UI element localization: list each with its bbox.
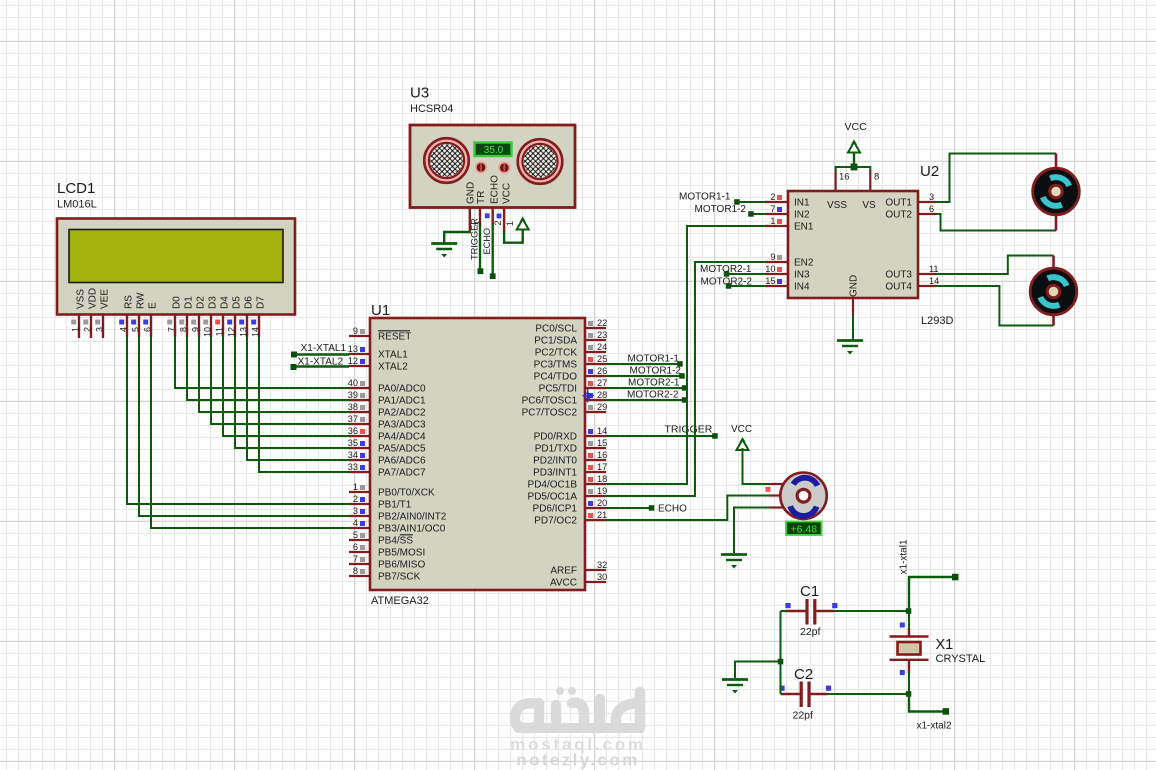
- svg-text:PA0/ADC0: PA0/ADC0: [378, 384, 426, 395]
- wire LCD RW to PB2: [139, 336, 349, 516]
- svg-text:39: 39: [348, 390, 358, 400]
- svg-text:LM016L: LM016L: [57, 199, 97, 211]
- svg-text:28: 28: [597, 390, 607, 400]
- svg-text:PA7/ADC7: PA7/ADC7: [378, 468, 426, 479]
- U2 pin 14 (OUT4) stub: [918, 285, 936, 287]
- svg-text:D0: D0: [172, 296, 183, 309]
- svg-text:x1-xtal1: x1-xtal1: [899, 539, 910, 574]
- LCD1 pin 11 stub: [222, 315, 224, 338]
- node ECHO terminal dot: [490, 273, 496, 279]
- svg-text:GND: GND: [466, 182, 477, 204]
- svg-text:16: 16: [597, 450, 607, 460]
- U1 pin 22 indicator square: [588, 321, 593, 326]
- svg-text:ECHO: ECHO: [658, 504, 687, 515]
- svg-text:PD1/TXD: PD1/TXD: [535, 444, 577, 455]
- U3 TR pin stub: [479, 208, 481, 226]
- U3 trim pot left: [476, 162, 486, 172]
- X1 indicator squares: [900, 623, 905, 628]
- svg-text:38: 38: [348, 402, 358, 412]
- U2 pin 15 indicator square: [777, 279, 782, 284]
- svg-text:D4: D4: [220, 296, 231, 309]
- svg-text:18: 18: [597, 474, 607, 484]
- ground (crystal): [722, 680, 748, 694]
- node x1-xtal2 terminal dot: [943, 708, 950, 715]
- wire U2 OUT3 to motor M2 +: [936, 256, 1054, 275]
- U1 pin 2 indicator square: [360, 497, 365, 502]
- svg-text:C2: C2: [794, 666, 813, 683]
- svg-text:9: 9: [353, 326, 358, 336]
- svg-text:7: 7: [166, 327, 176, 332]
- wire x1-xtal1 net: [909, 577, 955, 611]
- wire U1 pin28 MOTOR2-2: [606, 399, 685, 401]
- LCD1 pin 1 indicator square: [71, 320, 76, 325]
- U1 pin 7 (PB6/MISO) stub: [349, 563, 370, 565]
- svg-text:C1: C1: [800, 583, 819, 600]
- LCD1 pin 12 indicator square: [227, 320, 232, 325]
- wire C1 left: [781, 610, 787, 612]
- svg-text:PD7/OC2: PD7/OC2: [534, 516, 577, 527]
- svg-text:PC1/SDA: PC1/SDA: [534, 336, 577, 347]
- U1 pin 16 (PD2/INT0) stub: [585, 459, 606, 461]
- svg-text:D1: D1: [184, 296, 195, 309]
- U1 pin 23 (PC1/SDA) stub: [585, 339, 606, 341]
- svg-text:7: 7: [353, 554, 358, 564]
- U1 pin 6 indicator square: [360, 545, 365, 550]
- svg-text:9: 9: [190, 327, 200, 332]
- wire X1-XTAL1 to U1 XTAL1: [294, 353, 349, 355]
- svg-text:PB3/AIN1/OC0: PB3/AIN1/OC0: [378, 524, 446, 535]
- svg-text:IN3: IN3: [794, 270, 810, 281]
- svg-text:X1-XTAL1: X1-XTAL1: [301, 343, 347, 354]
- motor M1 bottom pin: [1055, 213, 1058, 231]
- svg-text:IN2: IN2: [794, 210, 810, 221]
- U2 pin 6 (OUT2) stub: [918, 213, 936, 215]
- MCU U1 ATMEGA32 body: [370, 318, 585, 590]
- servo + indicator square: [766, 487, 771, 492]
- LCD1 pin 7 indicator square: [167, 320, 172, 325]
- wire servo - to ground: [734, 508, 770, 554]
- LCD1 pin 3 stub: [102, 315, 104, 339]
- LCD1 pin 8 stub: [186, 315, 188, 338]
- U2 pin 8 (VS) stub: [869, 170, 871, 191]
- svg-text:11: 11: [214, 327, 224, 336]
- svg-text:8: 8: [874, 172, 879, 183]
- svg-text:PA3/ADC3: PA3/ADC3: [378, 420, 426, 431]
- svg-text:VEE: VEE: [100, 289, 111, 309]
- U3 ECHO pin stub: [492, 208, 494, 226]
- C1 indicator squares: [785, 603, 790, 608]
- U3 ECHO indicator square: [497, 214, 502, 219]
- U1 pin 12 (XTAL2) stub: [349, 365, 370, 367]
- wire LCD RS to PB1: [127, 336, 349, 504]
- svg-text:VSS: VSS: [76, 289, 87, 309]
- U1 pin 7 indicator square: [360, 557, 365, 562]
- U2 pin 7 (IN2) stub: [765, 213, 788, 215]
- LCD1 pin 13 indicator square: [239, 320, 244, 325]
- wire U1 PD7 to servo signal: [606, 496, 770, 521]
- sensor U3 HCSR04 body: [410, 125, 575, 208]
- svg-text:PD5/OC1A: PD5/OC1A: [528, 492, 578, 503]
- wire LCD D2 to PA2: [199, 336, 349, 412]
- driver U2 L293D body: [788, 191, 918, 298]
- svg-text:E: E: [148, 302, 159, 309]
- U1 pin 26 indicator square: [588, 369, 593, 374]
- LCD LCD1 pin names: [76, 288, 267, 309]
- U1 pin 39 indicator square: [360, 393, 365, 398]
- svg-text:PB7/SCK: PB7/SCK: [378, 572, 421, 583]
- svg-text:40: 40: [348, 378, 358, 388]
- ground (U3): [431, 244, 457, 258]
- wire LCD D3 to PA3: [211, 336, 349, 424]
- U1 pin 19 (PD5/OC1A) stub: [585, 495, 606, 497]
- svg-text:IN1: IN1: [794, 198, 810, 209]
- svg-text:33: 33: [348, 462, 358, 472]
- svg-text:10: 10: [765, 264, 775, 274]
- U1 pin 34 indicator square: [360, 453, 365, 458]
- U2 pin 2 indicator square: [777, 195, 782, 200]
- svg-text:D5: D5: [232, 296, 243, 309]
- svg-text:PD4/OC1B: PD4/OC1B: [528, 480, 578, 491]
- svg-text:MOTOR1-2: MOTOR1-2: [695, 204, 747, 215]
- svg-text:PD3/INT1: PD3/INT1: [533, 468, 577, 479]
- U1 pin 15 indicator square: [588, 441, 593, 446]
- node MOTOR1-1 dot (U2 side): [734, 199, 740, 205]
- svg-text:34: 34: [348, 450, 358, 460]
- wire U2 OUT4 to motor M2 -: [936, 286, 1054, 326]
- U1 pin 14 (PD0/RXD) stub: [585, 435, 606, 437]
- svg-text:VCC: VCC: [731, 424, 752, 435]
- svg-text:7: 7: [770, 204, 775, 214]
- watermark mostaql logo: [515, 692, 640, 728]
- svg-text:2: 2: [353, 494, 358, 504]
- U1 pin 9 (RESET) stub: [349, 335, 370, 337]
- wire X1-XTAL2 to U1 XTAL2: [294, 365, 350, 367]
- motor M2 top pin: [1052, 256, 1055, 271]
- svg-text:LCD1: LCD1: [57, 180, 95, 197]
- U1 pin 2 (PB1/T1) stub: [349, 503, 370, 505]
- svg-text:5: 5: [130, 327, 140, 332]
- LCD1 pin 6 indicator square: [143, 320, 148, 325]
- U1 pin 32 (AREF) stub: [585, 569, 606, 571]
- wire LCD D4 to PA4: [223, 336, 349, 436]
- svg-text:MOTOR2-2: MOTOR2-2: [627, 390, 679, 401]
- wire U3 GND to ground: [444, 231, 470, 244]
- svg-text:PC7/TOSC2: PC7/TOSC2: [522, 408, 578, 419]
- U1 pin 40 indicator square: [360, 381, 365, 386]
- U1 pin 28 (PC6/TOSC1) stub: [585, 399, 606, 401]
- svg-text:PC2/TCK: PC2/TCK: [535, 348, 578, 359]
- U1 pin 38 indicator square: [360, 405, 365, 410]
- svg-text:U3: U3: [410, 85, 429, 102]
- U1 pin 33 (PA7/ADC7) stub: [349, 471, 370, 473]
- svg-text:24: 24: [597, 342, 607, 352]
- svg-text:1: 1: [353, 482, 358, 492]
- wire C2 left: [781, 693, 782, 695]
- svg-text:+6.48: +6.48: [791, 523, 818, 535]
- svg-text:RESET: RESET: [378, 332, 411, 343]
- capacitor C2: [781, 682, 828, 708]
- ground (servo): [721, 555, 747, 569]
- svg-text:20: 20: [597, 498, 607, 508]
- U1 pin 5 (PB4/SS) stub: [349, 539, 370, 541]
- svg-text:13: 13: [348, 344, 358, 354]
- U1 pin 4 (PB3/AIN1/OC0) stub: [349, 527, 370, 529]
- U1 pin 25 indicator square: [588, 357, 593, 362]
- LCD1 pin 12 stub: [234, 315, 236, 338]
- node TRIGGER dot (U1 side): [712, 433, 718, 439]
- U1 pin 13 (XTAL1) stub: [349, 353, 370, 355]
- svg-text:PB1/T1: PB1/T1: [378, 500, 412, 511]
- U1 pin 28 indicator square: [588, 393, 593, 398]
- svg-text:16: 16: [839, 172, 850, 183]
- svg-text:IN4: IN4: [794, 282, 810, 293]
- wire MOTOR2-1 to U2 IN3: [727, 273, 771, 275]
- svg-text:26: 26: [597, 366, 607, 376]
- node MOTOR2-1 dot (U2 side): [724, 271, 730, 277]
- svg-text:9: 9: [770, 252, 775, 262]
- U2 pin 11 (OUT3) stub: [918, 273, 936, 275]
- svg-text:PA1/ADC1: PA1/ADC1: [378, 396, 426, 407]
- U2 pin 9 (EN2) stub: [765, 261, 788, 263]
- U1 pin 38 (PA2/ADC2) stub: [349, 411, 370, 413]
- power VCC arrow (U3): [517, 217, 529, 230]
- LCD1 pin 2 indicator square: [83, 320, 88, 325]
- wire U2 OUT1 to motor M1 +: [936, 154, 1056, 203]
- node ECHO dot (U1 side): [649, 505, 655, 511]
- svg-text:21: 21: [597, 510, 607, 520]
- svg-text:PB6/MISO: PB6/MISO: [378, 560, 425, 571]
- motor M2 body: [1030, 268, 1077, 315]
- U1 pin 33 indicator square: [360, 465, 365, 470]
- U2 pin 9 indicator square: [777, 255, 782, 260]
- U1 pin 12 indicator square: [360, 359, 365, 364]
- node junction C2/crystal: [906, 691, 912, 697]
- capacitor C1: [786, 599, 834, 625]
- wire LCD D7 to PA7: [259, 336, 349, 472]
- LCD1 pin 5 indicator square: [131, 320, 136, 325]
- wire junction to ground (crystal): [735, 662, 781, 679]
- wire U1 pin20 ECHO: [606, 507, 652, 509]
- U3 TR indicator square: [485, 213, 490, 218]
- svg-text:x1-xtal2: x1-xtal2: [917, 721, 952, 732]
- svg-text:RW: RW: [136, 292, 147, 309]
- U1 pin 21 (PD7/OC2) stub: [585, 519, 606, 521]
- U3 VCC pin stub: [503, 208, 505, 232]
- U1 pin 22 (PC0/SCL) stub: [585, 327, 606, 329]
- svg-text:PD0/RXD: PD0/RXD: [534, 432, 577, 443]
- node MOTOR2-2 dot (U1 side): [682, 397, 688, 403]
- LCD LCD1 body: [57, 219, 295, 315]
- svg-text:15: 15: [597, 438, 607, 448]
- U2 pin 1 (EN1) stub: [765, 225, 788, 227]
- U1 pin 40 (PA0/ADC0) stub: [349, 387, 370, 389]
- svg-text:8: 8: [178, 327, 188, 332]
- node MOTOR1-2 dot (U2 side): [748, 211, 754, 217]
- svg-text:HCSR04: HCSR04: [410, 103, 453, 115]
- wire U1 pin14 TRIGGER: [606, 435, 715, 437]
- LCD1 pin 11 indicator square: [215, 320, 220, 325]
- U1 pin 4 indicator square: [360, 521, 365, 526]
- U1 pin 16 indicator square: [588, 453, 593, 458]
- svg-text:D7: D7: [256, 296, 267, 309]
- wire LCD D0 to PA0: [175, 336, 349, 388]
- svg-text:32: 32: [597, 560, 607, 570]
- U2 pin 1 indicator square: [777, 219, 782, 224]
- LCD1 pin 1 stub: [78, 315, 80, 339]
- svg-text:35.0: 35.0: [484, 145, 504, 156]
- wire U1 pin25 MOTOR1-1: [606, 363, 680, 365]
- LCD1 pin 5 stub: [138, 315, 140, 338]
- U2 pin 16 (VSS) stub: [834, 170, 836, 191]
- svg-text:36: 36: [348, 426, 358, 436]
- svg-text:MOTOR1-1: MOTOR1-1: [628, 354, 680, 365]
- U2 pin 10 indicator square: [777, 267, 782, 272]
- svg-text:TR: TR: [476, 191, 487, 204]
- svg-text:3: 3: [353, 506, 358, 516]
- wire VCC vertical (U2): [853, 151, 855, 167]
- U1 pin 1 (PB0/T0/XCK) stub: [349, 491, 370, 493]
- U3 distance display 35.0: [475, 143, 512, 157]
- wire LCD D6 to PA6: [247, 336, 349, 460]
- U1 pin 27 indicator square: [588, 381, 593, 386]
- node MOTOR2-1 dot (U1 side): [682, 385, 688, 391]
- svg-text:AVCC: AVCC: [550, 578, 577, 589]
- U1 pin 27 (PC5/TDI) stub: [585, 387, 606, 389]
- LCD1 pin 13 stub: [246, 315, 248, 338]
- svg-text:25: 25: [597, 354, 607, 364]
- svg-text:2: 2: [493, 220, 503, 225]
- U1 pin 23 indicator square: [588, 333, 593, 338]
- U1 pin 20 indicator square: [588, 501, 593, 506]
- U2 pin 10 (IN3) stub: [765, 273, 788, 275]
- servo motor body: [780, 473, 826, 519]
- node x1-xtal1 terminal dot: [952, 574, 959, 581]
- servo value display +6.48: [786, 522, 822, 536]
- svg-text:22pf: 22pf: [800, 626, 821, 638]
- svg-text:35: 35: [348, 438, 358, 448]
- svg-text:XTAL2: XTAL2: [378, 362, 408, 373]
- U1 pin 1 indicator square: [360, 485, 365, 490]
- svg-text:13: 13: [238, 327, 248, 337]
- wire MOTOR2-2 to U2 IN4: [729, 285, 771, 287]
- svg-text:14: 14: [250, 327, 260, 337]
- svg-text:1: 1: [505, 221, 515, 226]
- svg-text:PD6/ICP1: PD6/ICP1: [533, 504, 578, 515]
- U1 pin 18 indicator square: [588, 477, 593, 482]
- svg-text:15: 15: [765, 276, 775, 286]
- U2 pin 3 (OUT1) stub: [918, 201, 936, 203]
- wire U1 pin26 MOTOR1-2: [606, 375, 682, 377]
- LCD1 pin 3 indicator square: [95, 320, 100, 325]
- svg-text:29: 29: [597, 402, 607, 412]
- svg-text:6: 6: [142, 327, 152, 332]
- svg-text:12: 12: [348, 356, 358, 366]
- svg-text:3: 3: [473, 221, 483, 226]
- svg-text:6: 6: [353, 542, 358, 552]
- svg-text:OUT1: OUT1: [885, 198, 912, 209]
- U1 pin 8 (PB7/SCK) stub: [349, 575, 370, 577]
- U3 right transducer: [518, 139, 563, 184]
- svg-text:OUT4: OUT4: [885, 282, 912, 293]
- U2 pin 7 indicator square: [777, 207, 782, 212]
- LCD1 pin 14 stub: [258, 315, 260, 338]
- node junction C1/C2 to ground: [778, 659, 784, 665]
- svg-text:14: 14: [597, 426, 607, 436]
- U1 pin 35 indicator square: [360, 441, 365, 446]
- U1 pin 19 indicator square: [588, 489, 593, 494]
- svg-text:ATMEGA32: ATMEGA32: [371, 595, 429, 607]
- cursor crosshair at pin 28: [583, 389, 594, 403]
- svg-text:D2: D2: [196, 296, 207, 309]
- svg-text:RS: RS: [124, 295, 135, 309]
- svg-text:OUT2: OUT2: [885, 210, 912, 221]
- wire C1 right to crystal net: [833, 610, 909, 612]
- motor M2 bottom pin: [1052, 313, 1055, 326]
- wire x1-xtal2 net: [909, 694, 946, 712]
- svg-text:17: 17: [597, 462, 607, 472]
- wire C1-C2 left vertical: [780, 611, 782, 694]
- U1 pin 5 indicator square: [360, 533, 365, 538]
- svg-text:22: 22: [597, 318, 607, 328]
- U1 pin 30 (AVCC) stub: [585, 581, 606, 583]
- LCD1 pin 4 stub: [126, 315, 128, 338]
- svg-text:4: 4: [118, 327, 128, 332]
- svg-text:PD2/INT0: PD2/INT0: [533, 456, 577, 467]
- svg-text:4: 4: [353, 518, 358, 528]
- servo motor pins: [770, 483, 784, 485]
- svg-text:PB2/AIN0/INT2: PB2/AIN0/INT2: [378, 512, 447, 523]
- svg-text:10: 10: [202, 327, 212, 337]
- svg-text:PC3/TMS: PC3/TMS: [534, 360, 578, 371]
- svg-text:5: 5: [353, 530, 358, 540]
- svg-text:notezly.com: notezly.com: [516, 751, 639, 770]
- LCD1 pin 2 stub: [90, 315, 92, 339]
- svg-text:AREF: AREF: [550, 566, 577, 577]
- U1 pin 9 indicator square: [360, 329, 365, 334]
- motor M1 top pin: [1055, 154, 1058, 171]
- svg-text:PB0/T0/XCK: PB0/T0/XCK: [378, 488, 435, 499]
- wire U2 VSS/VS tee to VCC: [836, 167, 871, 171]
- LCD1 pin 10 indicator square: [203, 320, 208, 325]
- svg-text:2: 2: [770, 192, 775, 202]
- svg-text:8: 8: [353, 566, 358, 576]
- LCD1 pin 4 indicator square: [119, 320, 124, 325]
- node VCC junction (U2): [851, 164, 858, 171]
- svg-text:TRIGGER: TRIGGER: [665, 424, 713, 436]
- svg-text:OUT3: OUT3: [885, 270, 912, 281]
- U1 pin 24 indicator square: [588, 345, 593, 350]
- U1 pin 8 indicator square: [360, 569, 365, 574]
- svg-text:XTAL1: XTAL1: [378, 350, 408, 361]
- wire U2 EN1 to U1 PD4: [606, 226, 770, 484]
- svg-text:U1: U1: [371, 302, 390, 319]
- LCD1 pin 7 stub: [174, 315, 176, 338]
- svg-text:VCC: VCC: [845, 121, 868, 133]
- svg-text:PC4/TDO: PC4/TDO: [534, 372, 578, 383]
- motor M1 body: [1033, 168, 1080, 215]
- wire LCD D5 to PA5: [235, 336, 349, 448]
- svg-text:PB5/MOSI: PB5/MOSI: [378, 548, 425, 559]
- LCD1 pin 9 indicator square: [191, 320, 196, 325]
- svg-text:MOTOR2-1: MOTOR2-1: [628, 378, 680, 389]
- svg-text:PA2/ADC2: PA2/ADC2: [378, 408, 426, 419]
- power VCC arrow (U2): [848, 140, 860, 153]
- U1 pin 6 (PB5/MOSI) stub: [349, 551, 370, 553]
- U1 pin 3 (PB2/AIN0/INT2) stub: [349, 515, 370, 517]
- U1 pin 17 (PD3/INT1) stub: [585, 471, 606, 473]
- C2 indicator squares: [779, 686, 784, 691]
- wire U3 ECHO (ECHO net): [492, 224, 494, 276]
